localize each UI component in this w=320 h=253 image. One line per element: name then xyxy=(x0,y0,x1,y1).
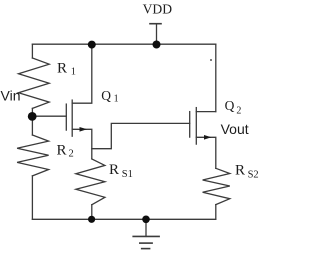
label R2 xyxy=(57,143,74,160)
svg-text:R: R xyxy=(57,143,67,159)
junction dot Q1 drain on top rail xyxy=(88,41,96,49)
svg-text:1: 1 xyxy=(71,67,76,78)
transistor Q2 drain lead xyxy=(196,111,216,113)
VDD supply bar xyxy=(150,23,161,25)
resistor R2 xyxy=(17,135,48,176)
wire RS1 to bottom rail xyxy=(91,205,93,220)
label RS2 xyxy=(235,162,259,180)
node Vin gate junction xyxy=(28,112,37,121)
wire left rail bottom (R2 to bottom rail) xyxy=(31,176,33,219)
svg-text:R: R xyxy=(57,61,67,77)
wire right rail (top rail to Q2 drain) xyxy=(215,44,217,111)
transistor Q1 gate bar xyxy=(65,104,67,130)
transistor Q2 gate bar xyxy=(189,112,191,138)
speck artifact xyxy=(210,59,212,61)
ground bar 2 xyxy=(140,242,152,244)
svg-text:2: 2 xyxy=(69,149,74,160)
ground stem xyxy=(145,219,147,236)
svg-text:Vin: Vin xyxy=(1,87,21,103)
wire left rail top (top rail to R1) xyxy=(31,44,33,58)
transistor Q2 channel bar xyxy=(195,108,197,145)
svg-text:Q: Q xyxy=(101,88,111,103)
svg-text:Vout: Vout xyxy=(221,121,249,137)
wire source Q1 to gate Q2 xyxy=(92,123,190,148)
wire top rail VDD xyxy=(32,43,215,45)
wire gate lead Q1 (node to gate) xyxy=(32,115,66,117)
svg-text:R: R xyxy=(109,162,119,178)
wire left rail mid (R1 to R2 through node) xyxy=(31,108,33,135)
resistor RS1 xyxy=(76,159,105,205)
svg-text:2: 2 xyxy=(236,105,241,116)
wire RS2 to bottom rail xyxy=(215,205,217,220)
label Q1 xyxy=(101,88,118,105)
junction dot VDD xyxy=(153,41,161,49)
label RS1 xyxy=(109,162,133,180)
label R1 xyxy=(57,61,76,78)
VDD supply stem xyxy=(156,24,158,45)
resistor R1 xyxy=(19,58,50,108)
junction dot RS1 bottom rail xyxy=(88,216,95,223)
svg-text:1: 1 xyxy=(114,93,119,104)
svg-text:S1: S1 xyxy=(122,169,133,180)
wire bottom rail xyxy=(32,218,215,220)
svg-text:Q: Q xyxy=(225,98,235,113)
resistor RS2 xyxy=(203,168,230,204)
transistor Q1 source lead xyxy=(72,129,92,159)
transistor Q2 source arrow xyxy=(204,135,211,140)
svg-text:VDD: VDD xyxy=(143,1,173,16)
transistor Q1 source arrow xyxy=(80,127,88,132)
transistor Q1 drain lead xyxy=(72,44,92,103)
transistor Q2 source lead xyxy=(196,137,216,168)
junction dot ground xyxy=(142,216,150,224)
svg-text:R: R xyxy=(235,162,245,178)
ground bar 1 xyxy=(133,235,159,237)
transistor Q1 channel bar xyxy=(71,100,73,136)
label Q2 xyxy=(225,98,242,116)
ground bar 3 xyxy=(142,248,150,250)
svg-text:S2: S2 xyxy=(248,169,259,180)
